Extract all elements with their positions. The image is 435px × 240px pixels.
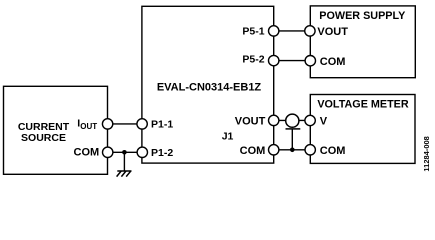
svg-text:V: V (320, 116, 328, 128)
svg-text:11284-008: 11284-008 (422, 136, 431, 171)
wire P5-2 to power supply COM (274, 60, 311, 62)
terminal voltage meter V (305, 115, 315, 125)
svg-text:P1-2: P1-2 (151, 147, 173, 159)
wire J1 COM to voltage meter COM (274, 149, 311, 151)
svg-text:VOUT: VOUT (235, 115, 266, 127)
terminal IOUT (102, 119, 112, 129)
svg-text:COM: COM (320, 145, 346, 157)
svg-text:P5-1: P5-1 (242, 25, 264, 37)
svg-text:COM: COM (320, 56, 346, 68)
svg-text:VOUT: VOUT (317, 26, 348, 38)
terminal P1-1 (137, 119, 147, 129)
terminal COM (current source) (103, 147, 113, 157)
terminal power supply VOUT (305, 26, 315, 36)
wire J1 VOUT to voltage meter V (274, 119, 311, 121)
terminal J1 VOUT (269, 115, 279, 125)
terminal J1 COM (269, 145, 279, 155)
current source box (4, 86, 108, 174)
svg-text:POWER SUPPLY: POWER SUPPLY (319, 10, 406, 22)
svg-text:P5-2: P5-2 (242, 54, 264, 66)
probe symbol bar (286, 128, 301, 130)
terminal voltage meter COM (305, 145, 315, 155)
junction dot on J1 COM wire (290, 148, 295, 153)
svg-text:EVAL-CN0314-EB1Z: EVAL-CN0314-EB1Z (157, 81, 262, 93)
svg-text:COM: COM (240, 145, 266, 157)
svg-text:J1: J1 (222, 131, 234, 143)
wire ground stem (123, 152, 125, 171)
terminal P5-2 (269, 55, 279, 65)
eval board box EVAL-CN0314-EB1Z (142, 6, 274, 163)
wire COM to P1-2 (108, 151, 143, 153)
svg-text:P1-1: P1-1 (151, 119, 173, 131)
svg-text:VOLTAGE METER: VOLTAGE METER (317, 98, 409, 110)
junction dot on COM to P1-2 wire (122, 150, 127, 155)
svg-text:COM: COM (74, 147, 100, 159)
ground symbol (117, 171, 132, 177)
voltage meter box (310, 95, 415, 164)
probe symbol circle (286, 114, 299, 127)
wire probe stem to COM net (291, 129, 293, 150)
terminal P1-2 (137, 147, 147, 157)
terminal P5-1 (269, 26, 279, 36)
power supply box (310, 6, 415, 78)
wire IOUT to P1-1 (108, 123, 143, 125)
terminal power supply COM (305, 56, 315, 66)
svg-text:SOURCE: SOURCE (21, 132, 66, 144)
wire P5-1 to power supply VOUT (274, 30, 311, 32)
